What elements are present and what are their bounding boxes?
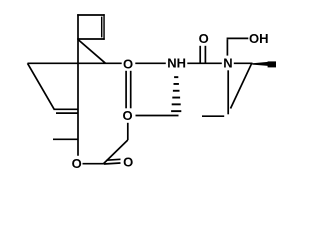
wire O1 to NH [135, 62, 166, 64]
cyclobutene double bond inner line [101, 17, 103, 38]
solid wedge methyl [252, 62, 268, 66]
O=O double bond line a [125, 71, 127, 109]
bond N to CH2OH vertical [226, 39, 228, 55]
cyclobutene square right edge [103, 14, 105, 40]
cyclobutene square bottom edge [77, 38, 105, 40]
methyl on ring carbon [53, 138, 78, 140]
main horizontal left segment [28, 62, 122, 64]
svg-text:OH: OH [249, 31, 269, 46]
O=O double bond line b [130, 71, 132, 109]
hashed wedge NH to CH [171, 76, 181, 112]
svg-text:N: N [223, 56, 232, 71]
cyclopropane diagonal [78, 40, 106, 64]
left ring diagonal [28, 63, 55, 109]
amide C=O line a [199, 46, 201, 63]
ring vertical N down to C [227, 70, 229, 114]
left ring C=C second line [56, 112, 78, 114]
bond CH2 to OH horizontal [227, 37, 249, 39]
bond CH2 down to carbonyl C [104, 140, 128, 164]
amide C=O line b [204, 46, 206, 63]
ester C=O line b [107, 158, 121, 161]
svg-text:O: O [123, 56, 133, 71]
cyclobutene square top edge [77, 14, 105, 16]
main vertical backbone (square left edge down to O ester) [77, 14, 79, 156]
left ring C=C main line [54, 108, 79, 110]
svg-text:O: O [72, 156, 82, 171]
bond N to C wedge carbon [234, 62, 253, 64]
svg-text:O: O [123, 155, 133, 170]
ester C=O line a [104, 163, 121, 164]
bond O2 to CH alpha [136, 115, 179, 117]
svg-text:O: O [199, 31, 209, 46]
bond O5 to carbonyl C [83, 163, 105, 165]
svg-text:O: O [123, 108, 133, 123]
svg-text:NH: NH [167, 56, 186, 71]
bond O2 down to CH2 [127, 123, 129, 140]
ring diagonal C to C below [231, 64, 252, 109]
wire NH to carbonyl to N [187, 62, 222, 64]
solid wedge methyl end block [268, 61, 276, 67]
methyl on right ring carbon [202, 115, 224, 117]
